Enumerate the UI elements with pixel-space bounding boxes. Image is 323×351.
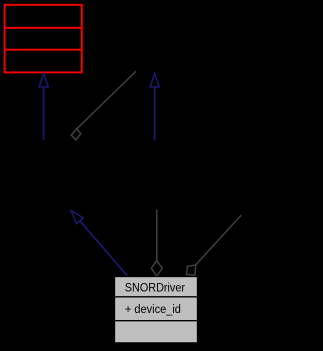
aggregation edge B (vertical into SNORDriver top) <box>151 210 162 277</box>
class box (red, truncated) top-left <box>4 5 82 73</box>
svg-text:SNORDriver: SNORDriver <box>125 281 185 295</box>
class box SNORDriver <box>115 277 198 343</box>
aggregation edge A (diamond at mid-left box top) <box>71 71 136 140</box>
inheritance edge C (from SNORDriver up-left) <box>71 211 127 276</box>
aggregation edge C (diagonal from right into SNORDriver top) <box>187 215 242 275</box>
inheritance edge B (middle, pointing up) <box>150 73 159 140</box>
svg-text:+ device_id: + device_id <box>125 302 181 316</box>
inheritance edge A (to red box) <box>39 73 48 140</box>
